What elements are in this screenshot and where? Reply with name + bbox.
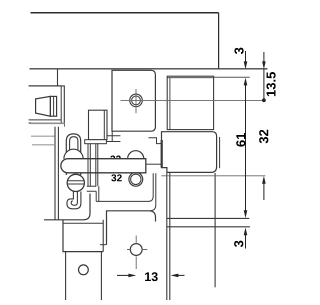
post legs (66, 252, 102, 300)
dim 3 top: arrow down (244, 61, 248, 69)
dim 3 bottom arrow up (244, 228, 248, 236)
left rail inner right edge (60, 86, 62, 123)
left profile verticals (55, 127, 58, 220)
left rail lower gray band (31, 122, 65, 124)
left rail body (29, 86, 65, 123)
bottom boss (107, 211, 156, 245)
knob left face (36, 96, 51, 116)
screw slot (68, 181, 85, 184)
step horizontals (87, 186, 96, 191)
left dome (64, 149, 83, 159)
right dome (128, 151, 144, 159)
dim 32 tail below (263, 183, 265, 200)
plate screw inner (132, 96, 141, 105)
axis ring outer (129, 172, 143, 186)
adjusting screw head (67, 174, 84, 191)
top panel bottom edge (long line) (30, 68, 268, 70)
top panel inner vertical (57, 69, 59, 86)
central plate (112, 70, 155, 131)
lower door left edges (167, 173, 170, 300)
hidden 32 label above arm (110, 156, 120, 163)
post outline (63, 220, 103, 252)
lower door top line (167, 217, 250, 219)
axis ring inner (131, 174, 141, 184)
small step left of lower block (149, 138, 162, 144)
flange (85, 140, 107, 144)
knob right face inner line (53, 96, 55, 116)
horizontal centerline (121, 99, 264, 101)
lower block (162, 132, 217, 173)
extension line 32 bottom (161, 175, 265, 177)
post inner line (100, 244, 107, 246)
drill hole (130, 244, 142, 256)
dim 3 top: tail above (245, 51, 247, 62)
dim 3 bottom tail (245, 235, 247, 249)
lower block left edge thick (161, 140, 163, 167)
door top block (167, 76, 213, 129)
post hole (79, 265, 89, 275)
door top block inner top line (167, 77, 213, 79)
dim 13 left arrow (117, 274, 130, 276)
lever hook outer (67, 192, 81, 209)
door top block inner left line (169, 78, 171, 130)
bottom plate edge (44, 194, 90, 220)
label 32 center (111, 174, 121, 181)
post top edge (63, 222, 103, 224)
dim 13.5 span line (263, 69, 265, 100)
label 32 right (259, 130, 268, 144)
drill hole ticks (127, 236, 147, 270)
dim 32 arrow up (262, 176, 266, 184)
dim 61 arrow down (244, 210, 248, 218)
dim 61 line (245, 85, 247, 211)
left rail gray line lower (31, 135, 55, 137)
label 13.5 (266, 72, 275, 96)
plate screw outer (130, 94, 143, 107)
left rail bottom inner line (29, 119, 62, 121)
upper box inner line (103, 110, 105, 140)
lower door inner line (167, 226, 250, 228)
post right edge (102, 220, 104, 252)
rail inner line (96, 173, 153, 201)
upper box (89, 110, 108, 140)
label 13 (145, 272, 158, 281)
top gap line right (214, 76, 250, 78)
lower block right inner edge (219, 137, 221, 168)
pivot pin (70, 137, 78, 159)
label 3 top (234, 48, 243, 54)
dim 13 right arrow (178, 274, 185, 276)
dim 3/61 line: arrow up (244, 78, 248, 86)
left rail top lines (29, 86, 62, 89)
lever hook inner curl (71, 192, 77, 206)
dim 13.5 arrow down (262, 61, 266, 69)
dim 13.5 tail above (263, 52, 265, 62)
knob right face (50, 96, 56, 116)
left rail band end vertical (64, 123, 66, 126)
short line left of block (146, 163, 162, 165)
lower door back edge (214, 173, 216, 287)
left rail gray line lowest (32, 144, 55, 146)
plate foot lines (106, 131, 120, 141)
dim dot (262, 98, 266, 102)
label 3 bottom (234, 241, 243, 247)
hinge arm (61, 159, 146, 173)
screw vertical centerline (135, 89, 137, 113)
step vertical pair (96, 186, 99, 201)
top panel top edge (31, 12, 219, 14)
rail outer vertical (150, 173, 156, 211)
label 61 (236, 133, 245, 147)
top panel right edge (218, 13, 220, 69)
pivot capsule (66, 134, 80, 175)
guide column verticals crossing arm (88, 144, 98, 187)
